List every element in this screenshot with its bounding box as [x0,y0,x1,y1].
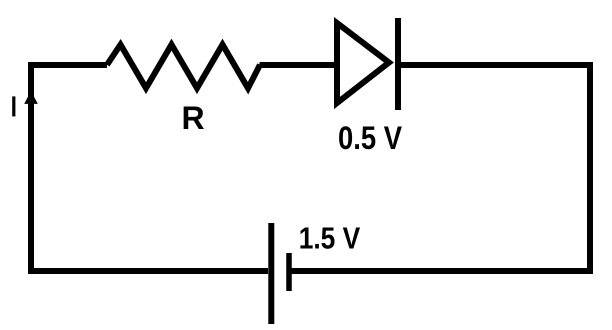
battery V1 short plate (negative) [286,253,292,291]
resistor R1 zigzag [107,45,260,89]
wire right and corners: top-right wire, right wire, bottom-right wire [289,65,590,271]
node I label [12,96,15,116]
svg-text:1.5 V: 1.5 V [299,220,361,255]
wire left and corners: bottom-left wire, left wire, top-left wire [31,65,268,271]
svg-text:0.5 V: 0.5 V [338,120,403,156]
diode D1 cathode bar [395,18,401,110]
wire resistor to diode [260,62,336,68]
current arrow on left wire [24,91,38,104]
svg-text:R: R [182,100,205,136]
diode D1 triangle (anode) [337,23,389,103]
battery V1 long plate (positive) [268,223,274,324]
